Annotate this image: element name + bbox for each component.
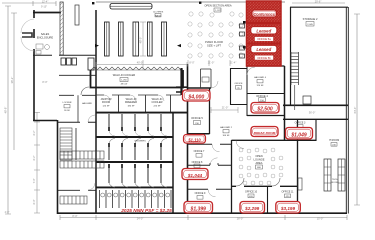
svg-text:12'-4": 12'-4" — [42, 0, 49, 4]
dimension line bottom — [60, 215, 347, 220]
clothes rack vertical 5 — [162, 22, 167, 56]
door arc janitor room — [104, 95, 110, 101]
wire right corridor wall — [283, 118, 348, 120]
svg-text:$1,049: $1,049 — [290, 132, 307, 138]
svg-text:28'-0": 28'-0" — [237, 217, 244, 221]
wire bottom exterior wall — [57, 212, 347, 214]
svg-text:120 SF: 120 SF — [102, 105, 110, 107]
stall dividers row1 — [108, 114, 167, 136]
door jambs offices column — [210, 163, 219, 165]
svg-text:48'-8": 48'-8" — [4, 107, 8, 114]
wire office 11 right wall — [297, 140, 299, 213]
wire reception room wall — [59, 74, 96, 76]
dimension line right outer — [292, 3, 360, 205]
svg-text:$2,500: $2,500 — [256, 107, 273, 113]
wire office5 bottom wall — [188, 133, 210, 135]
svg-text:FREEZER: FREEZER — [125, 100, 137, 104]
svg-text:OFFICE 5: OFFICE 5 — [191, 116, 203, 120]
closet label box — [202, 77, 209, 82]
break room tag — [251, 127, 278, 137]
wire offices column wall — [231, 140, 233, 213]
svg-text:$3,199: $3,199 — [280, 206, 295, 211]
wire break room bottom wall — [232, 139, 317, 141]
wire cooler top line — [91, 69, 183, 71]
door arc break room — [236, 141, 244, 149]
wire stall block row walls — [96, 113, 188, 188]
conference label pill — [252, 10, 277, 17]
clothes rack vertical 3 — [133, 22, 139, 56]
price tag $1,044 — [182, 169, 208, 180]
svg-text:ROOM: ROOM — [102, 100, 110, 104]
dimension line left outer — [2, 1, 56, 214]
dim ticks open area — [188, 60, 230, 66]
clothes rack horizontal top — [110, 4, 152, 10]
svg-text:SALES: SALES — [41, 32, 50, 36]
svg-text:36'-0": 36'-0" — [309, 111, 316, 115]
svg-text:$1,044: $1,044 — [187, 173, 203, 178]
wire right exterior wall — [346, 7, 348, 214]
door jamb boxes left of leased column — [240, 24, 245, 28]
door arc freezer room — [130, 95, 136, 101]
svg-text:8'-2": 8'-2" — [33, 155, 36, 160]
svg-text:$4,000: $4,000 — [187, 94, 204, 100]
wire hallway wall lower-left — [59, 94, 96, 96]
wire stall block right wall — [172, 113, 174, 214]
svg-text:HALLWAY 2: HALLWAY 2 — [220, 126, 233, 129]
svg-text:8'-0": 8'-0" — [33, 199, 36, 204]
svg-text:OFFICE 9: OFFICE 9 — [195, 192, 206, 195]
svg-text:64'-0": 64'-0" — [353, 107, 357, 114]
wire leased column bottom wall — [246, 65, 285, 67]
tech room slot rack 2 — [338, 159, 345, 191]
svg-text:180 SF: 180 SF — [127, 105, 135, 107]
stairs ladder storage room — [291, 52, 299, 110]
svg-text:8'-0": 8'-0" — [42, 80, 47, 84]
svg-text:8'-0": 8'-0" — [72, 214, 77, 218]
svg-text:7'-0": 7'-0" — [33, 178, 36, 183]
svg-text:PIANO FLOOR: PIANO FLOOR — [205, 40, 223, 44]
wire office3 divider wall — [315, 119, 317, 141]
svg-text:220 SF: 220 SF — [153, 105, 161, 107]
wire office7 walls — [188, 164, 232, 166]
wire center-left spine wall — [95, 10, 97, 214]
svg-text:160 SF: 160 SF — [222, 135, 230, 137]
door arc entry 2 — [21, 37, 34, 51]
leased pill office 5b — [251, 45, 277, 52]
svg-text:90 SF: 90 SF — [64, 110, 70, 112]
door arc left room — [88, 115, 95, 122]
clothes rack vertical 2 — [119, 22, 124, 56]
wire toilet room wall — [33, 54, 96, 56]
price tag $3,199 — [276, 202, 301, 214]
open lounge table circles grid — [239, 148, 283, 185]
dimension line bottom-left interior — [34, 112, 40, 213]
svg-text:CLOTHES: CLOTHES — [153, 12, 164, 14]
locker closet hatched — [60, 128, 72, 160]
node column squares — [243, 21, 246, 24]
svg-text:48'x13': 48'x13' — [121, 84, 128, 86]
svg-text:8'-0": 8'-0" — [189, 61, 194, 65]
wire office4 room bottom wall — [247, 115, 285, 117]
clothes rack vertical 1 — [105, 22, 110, 56]
svg-text:$2,299: $2,299 — [244, 206, 259, 211]
stall dividers row3 — [108, 164, 167, 187]
svg-text:9'-10": 9'-10" — [41, 6, 47, 9]
svg-text:Leased: Leased — [256, 28, 271, 33]
node arrow markers sales floor — [95, 44, 181, 47]
stall dividers row2 — [108, 138, 167, 160]
dim text bottom-left interior — [33, 130, 36, 204]
svg-text:OFFICE 4: OFFICE 4 — [256, 94, 268, 98]
wire left exterior wall lower — [57, 120, 59, 214]
svg-text:RACK: RACK — [155, 14, 162, 17]
svg-text:ENCLOSURE: ENCLOSURE — [37, 35, 53, 39]
svg-text:2,045: 2,045 — [307, 24, 313, 26]
wall box lower right room — [298, 178, 302, 190]
svg-text:OFFICE 5a: OFFICE 5a — [257, 37, 271, 41]
wire room wall at 122 — [57, 121, 96, 123]
door arc bottom-left room — [88, 183, 95, 190]
price tag $2,500 — [251, 103, 279, 114]
svg-text:2025 NNN PSF = $2.25: 2025 NNN PSF = $2.25 — [120, 208, 172, 214]
svg-text:21'-4": 21'-4" — [230, 61, 237, 65]
svg-text:120 SF: 120 SF — [256, 85, 264, 87]
svg-text:SIZE + LIFT: SIZE + LIFT — [207, 43, 221, 47]
sales floor table circles grid — [188, 12, 243, 58]
svg-text:8'-2": 8'-2" — [33, 130, 36, 135]
leased pill office 5a — [251, 27, 277, 34]
svg-text:48'-0": 48'-0" — [139, 37, 143, 44]
door arc office9 — [208, 189, 216, 197]
wire left step wall — [33, 120, 57, 122]
bench row C — [60, 196, 87, 204]
bench row B — [60, 161, 104, 168]
svg-text:STORAGE 2: STORAGE 2 — [303, 17, 318, 21]
wire storage room left wall — [290, 7, 292, 105]
wire office5 top wall — [188, 87, 212, 89]
toilet fixtures row4 — [101, 193, 170, 197]
svg-text:15'-0": 15'-0" — [317, 217, 324, 221]
door arc office5 — [211, 81, 218, 88]
wire cooler corner block — [176, 87, 188, 92]
price tag $1,110 — [184, 135, 206, 144]
svg-text:29'-6": 29'-6" — [315, 0, 322, 4]
walk-in cooler scalloped top edge — [91, 67, 181, 70]
door arc reception — [81, 87, 89, 95]
wire right lower room left wall — [297, 119, 299, 213]
closet walls top of office5 — [201, 69, 212, 88]
wire leased column left wall — [246, 66, 248, 116]
wire office 10-11 divider — [267, 186, 269, 213]
price tag $1,049 — [286, 128, 313, 140]
dim hallway2 — [211, 107, 238, 113]
wire cooler right end wall — [180, 68, 182, 95]
price tag $4,000 — [183, 90, 211, 101]
wall stub sales floor — [75, 5, 79, 25]
leased column hatched block — [247, 1, 282, 66]
wire top-left exterior wall — [33, 12, 61, 14]
hatched wall band left wing — [60, 2, 63, 55]
svg-text:WALK-IN COOLER: WALK-IN COOLER — [113, 73, 136, 77]
svg-text:HALLWAY: HALLWAY — [82, 102, 93, 105]
svg-text:OPEN SECTION AREA: OPEN SECTION AREA — [204, 4, 232, 8]
svg-text:OFFICE 3: OFFICE 3 — [295, 122, 306, 125]
wire storage bottom wall — [283, 104, 348, 106]
svg-text:$1,110: $1,110 — [187, 137, 201, 142]
wire offices 10-11 top wall — [232, 185, 299, 187]
wire freezer rooms dividers — [119, 95, 171, 112]
svg-text:ROOM: ROOM — [332, 182, 339, 184]
svg-text:OFFICE 11: OFFICE 11 — [282, 191, 295, 194]
wire office6 bottom wall — [188, 143, 232, 145]
svg-text:AREA: AREA — [255, 161, 262, 165]
svg-text:BREAK ROOM: BREAK ROOM — [254, 131, 276, 135]
wire office/storage divider wall — [284, 66, 286, 141]
svg-text:OPEN: OPEN — [255, 154, 262, 158]
svg-text:21'-0": 21'-0" — [208, 61, 215, 65]
wire office9 walls — [188, 188, 232, 190]
svg-text:OFFICE 7: OFFICE 7 — [194, 150, 205, 153]
svg-text:Leased: Leased — [256, 47, 271, 52]
svg-text:Conference: Conference — [253, 12, 275, 17]
svg-text:1,247: 1,247 — [215, 10, 221, 12]
toilet room fixtures — [36, 44, 49, 54]
svg-text:21'-0": 21'-0" — [222, 106, 229, 110]
door arc hallway4 — [247, 67, 255, 75]
wire office4 small room walls — [231, 68, 248, 105]
door arc entry 1 — [21, 19, 34, 33]
door arc office7 — [210, 158, 218, 166]
door arc office11 — [272, 178, 280, 186]
wire storage room top wall — [290, 6, 348, 8]
bench row A — [60, 151, 104, 159]
wire hallway4 bottom wall — [247, 93, 285, 95]
price tag $1,399 — [184, 202, 213, 214]
svg-text:OFFICE: OFFICE — [234, 83, 243, 85]
svg-text:$1,399: $1,399 — [190, 206, 207, 212]
door panel entry — [22, 33, 32, 37]
svg-text:OFFICE 10: OFFICE 10 — [245, 191, 258, 194]
wire bottom-left room wall — [58, 189, 97, 191]
svg-text:36'-2": 36'-2" — [10, 77, 14, 84]
wire center spine wall — [187, 64, 189, 214]
walk-in cooler band outline — [91, 70, 184, 88]
svg-text:SHOWERS: SHOWERS — [134, 141, 146, 143]
svg-text:LOUNGE: LOUNGE — [254, 157, 265, 161]
tech room small box — [303, 96, 311, 104]
svg-text:COOLER: COOLER — [152, 100, 163, 104]
svg-text:1,250: 1,250 — [121, 80, 127, 82]
kitchenette counters — [61, 58, 94, 70]
clothes rack vertical 4 — [148, 22, 153, 56]
svg-text:OFFICE 8: OFFICE 8 — [192, 161, 203, 164]
svg-text:HALLWAY 4: HALLWAY 4 — [254, 76, 267, 79]
wire office5 right wall — [209, 88, 211, 134]
door arc office8 — [212, 144, 220, 152]
wire freezer rooms top wall — [96, 94, 181, 96]
tech room slot rack 1 — [324, 159, 331, 191]
door arc office10 — [236, 178, 244, 186]
wire closet right wall — [75, 128, 77, 160]
svg-text:TECH: TECH — [332, 179, 338, 181]
svg-text:4'-0": 4'-0" — [5, 211, 10, 214]
svg-text:40'-0": 40'-0" — [137, 61, 144, 65]
price tag $2,299 — [240, 202, 265, 214]
svg-text:IT ROOM: IT ROOM — [329, 139, 339, 142]
wire top interior boundary — [96, 1, 285, 3]
wire left exterior wall upper — [33, 10, 35, 121]
door arc cooler room — [158, 95, 164, 101]
toilet stall row4 dividers — [100, 190, 172, 208]
dimension rack area — [96, 22, 187, 70]
svg-text:OFFICE 5b: OFFICE 5b — [257, 56, 271, 60]
wire left rooms divider — [77, 95, 79, 122]
svg-text:LOCKER: LOCKER — [63, 102, 72, 104]
svg-text:24'-0": 24'-0" — [137, 217, 144, 221]
